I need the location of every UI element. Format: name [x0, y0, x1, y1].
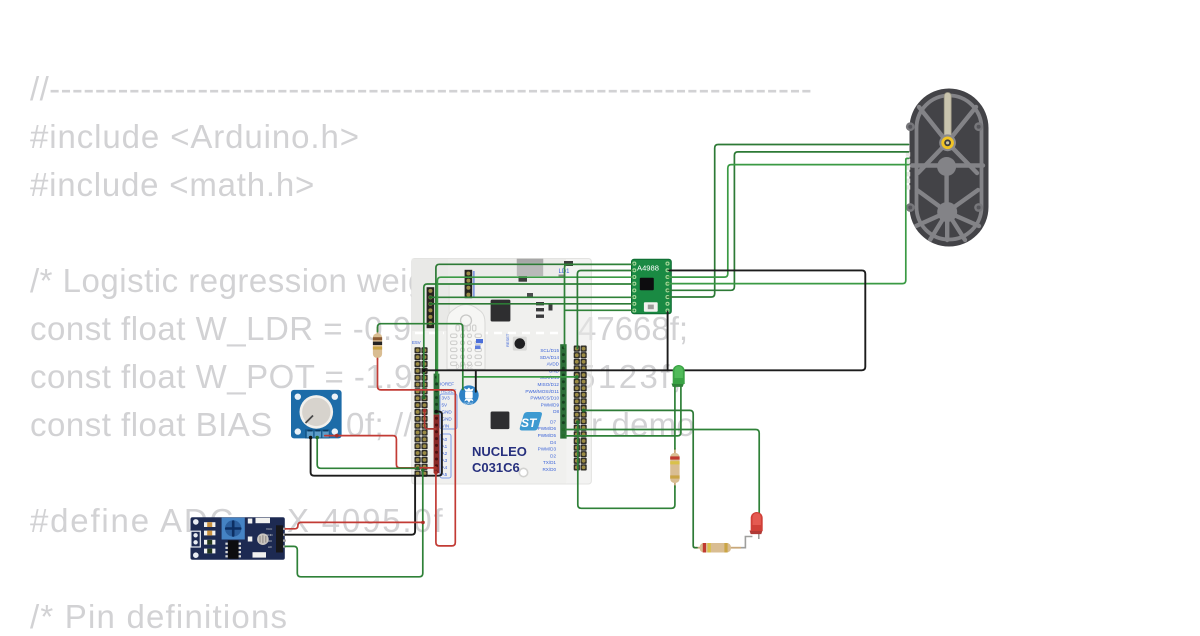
chip U3 bottom [491, 412, 510, 430]
svg-text:PWM/CS/D10: PWM/CS/D10 [530, 396, 559, 401]
svg-text:D7: D7 [550, 419, 556, 424]
screws [906, 122, 983, 212]
svg-text:A0: A0 [268, 545, 272, 549]
usb connector [517, 259, 543, 282]
right pin labels [525, 348, 559, 472]
shaft [944, 93, 951, 143]
reset button [505, 333, 527, 350]
wire green strip1 to A4988 pin1 [436, 264, 632, 374]
right green female strip [560, 344, 566, 438]
wire green led2 cathode to D5 [563, 384, 681, 436]
mounting hole [519, 468, 527, 476]
wire black ldr gnd [285, 476, 415, 535]
svg-text:GND: GND [442, 410, 453, 415]
svg-text:SCL/D15: SCL/D15 [540, 348, 559, 353]
wokwi logo chip [459, 385, 479, 405]
svg-text:MISO/D12: MISO/D12 [538, 382, 560, 387]
left pin labels / silkscreen [412, 340, 457, 478]
wire green led2 anode chain to D0 [578, 422, 675, 508]
wire green R1-top to wokwi chip [378, 324, 463, 390]
wire green v-x564 to A4988 pin8 [565, 264, 633, 348]
svg-text:IOREF: IOREF [440, 382, 454, 387]
svg-text:TX/D1: TX/D1 [543, 460, 556, 465]
NUCLEO C031C6 text [472, 444, 527, 475]
wire green left header to A4988 pin4 [424, 284, 632, 398]
svg-text:wokwi: wokwi [463, 402, 473, 406]
svg-text:SDA/D14: SDA/D14 [540, 355, 560, 360]
wire black pot gnd [311, 412, 442, 476]
svg-text:PWM/D6: PWM/D6 [538, 426, 557, 431]
left header female strips (green + red) [434, 374, 440, 474]
right main pin headers (2 columns) [574, 346, 587, 471]
white dashed silkscreen [415, 332, 560, 334]
wire endpoint dots [309, 296, 586, 525]
svg-text:RX/D0: RX/D0 [542, 467, 556, 472]
svg-text:RESET: RESET [505, 333, 510, 347]
wire green 6pin-3 to A4988 pin7 [430, 303, 632, 305]
wire black A4988 pin8R down [667, 312, 669, 370]
wire green ldr a0 [285, 470, 423, 577]
wire green D6 to red led [563, 430, 759, 534]
wire green motor A4988 pin6R [668, 145, 909, 298]
wire green pot sig [317, 438, 418, 469]
svg-text:VCC: VCC [266, 527, 273, 531]
wire red R1 chain [378, 359, 456, 546]
svg-text:3V3: 3V3 [442, 396, 451, 401]
svg-text:PWM/D3: PWM/D3 [538, 447, 557, 452]
connector teeth [906, 152, 910, 189]
wire red pot vcc [325, 436, 435, 468]
svg-text:PWM/D5: PWM/D5 [538, 433, 557, 438]
DHT22 ghost part [447, 305, 485, 371]
wire black gnd to wokwi chip [475, 370, 477, 391]
wire green strip2 to A4988 pin3 [437, 277, 632, 381]
wire green motor A4988 pin5R [668, 152, 909, 290]
svg-text:NUCLEO: NUCLEO [472, 444, 527, 459]
wire green motor A4988 pin4R [668, 158, 909, 283]
svg-text:AVDD: AVDD [547, 362, 560, 367]
6-pin header J? [427, 287, 435, 328]
background source-code text [30, 70, 812, 108]
wire green motor A4988 pin3R [668, 165, 909, 278]
svg-text:PWM/D9: PWM/D9 [541, 402, 560, 407]
svg-text:C031C6: C031C6 [472, 460, 520, 475]
mcu chip U2 [491, 300, 511, 322]
svg-text:D0: D0 [268, 539, 272, 543]
svg-text:D4: D4 [550, 440, 556, 445]
label LD1 [559, 261, 574, 277]
wire green D15 to A4988 pin2 [577, 271, 632, 349]
svg-text:5V: 5V [442, 403, 449, 408]
svg-text:E5V: E5V [412, 340, 422, 345]
board nucleo body [412, 259, 592, 485]
wire green D8 to R3 [584, 410, 697, 547]
wire green led2 anode upper [674, 384, 676, 449]
svg-text:D8: D8 [553, 409, 559, 414]
wire red ldr vcc [285, 522, 423, 528]
svg-text:A4988: A4988 [637, 264, 659, 273]
wire black gnd rail [424, 270, 865, 370]
svg-text:ST: ST [521, 416, 538, 430]
svg-text:PWM/MOSI/D11: PWM/MOSI/D11 [525, 389, 559, 394]
wire green 6pin-2 to A4988 pin6 [430, 296, 632, 298]
4-pin header J? [465, 270, 475, 298]
left main pin headers (2 columns) [415, 347, 428, 477]
smd parts [536, 302, 553, 318]
svg-text:D2: D2 [550, 453, 556, 458]
svg-text:GND: GND [266, 533, 274, 537]
wire green DHT data to D13 [463, 376, 577, 378]
ST logo [520, 412, 542, 431]
svg-text:GND: GND [442, 417, 453, 422]
wire red header to strip [425, 411, 436, 429]
